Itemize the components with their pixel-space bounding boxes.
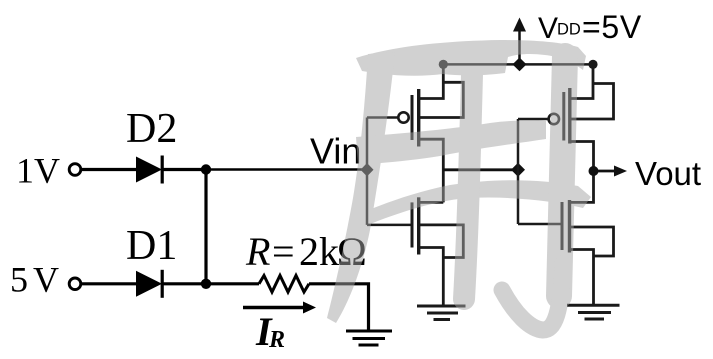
M1 gate bubble bbox=[398, 112, 408, 122]
ground (inverter 2) bbox=[567, 305, 620, 319]
wire gate lead to M1 bbox=[367, 116, 398, 119]
node inverter2 input diamond bbox=[511, 163, 525, 177]
svg-text:Vout: Vout bbox=[635, 155, 701, 192]
wire and arrow to Vout bbox=[594, 166, 628, 177]
watermark top horizontal stroke bbox=[356, 40, 586, 76]
current arrow IR bbox=[243, 302, 316, 314]
M1 gate bar bbox=[411, 95, 414, 140]
M2 drain lead bbox=[419, 201, 444, 204]
ground (inverter 1) bbox=[417, 306, 466, 320]
wire inverter1 gate column bbox=[366, 118, 369, 225]
M3 gate bar bbox=[562, 92, 565, 141]
resistor R1 zigzag bbox=[259, 276, 309, 293]
M1 channel bar bbox=[417, 89, 420, 147]
wire D1 cathode to node B bbox=[163, 282, 206, 285]
terminal 1V input bbox=[69, 164, 81, 176]
M3 gate bubble bbox=[549, 114, 559, 124]
svg-text:VDD=5V: VDD=5V bbox=[538, 9, 642, 45]
M4 channel bar bbox=[568, 200, 571, 253]
M2 gate bar bbox=[411, 202, 414, 247]
svg-text:D1: D1 bbox=[126, 223, 177, 269]
node Vin junction diamond bbox=[361, 163, 374, 176]
node A junction dot bbox=[201, 164, 211, 174]
wire VDD rail bbox=[443, 63, 593, 66]
transistor M3 PMOS of inverter 2 bbox=[518, 64, 614, 171]
wire gate lead to M2 bbox=[367, 224, 412, 227]
wire node B to resistor R bbox=[206, 282, 259, 285]
svg-text:1V: 1V bbox=[16, 151, 60, 191]
node Vout junction dot bbox=[589, 166, 599, 176]
ground (resistor) bbox=[346, 331, 392, 345]
wire D2 cathode to node A bbox=[163, 168, 206, 171]
wire 1V to D2 anode bbox=[81, 168, 137, 171]
M2 channel bar bbox=[417, 197, 420, 254]
M1 bulk tie to source bbox=[419, 82, 464, 117]
watermark brush character bbox=[327, 40, 591, 330]
M1 source lead bbox=[419, 64, 444, 98]
op-amp: (none) PMOS transistor M1 of inverter 1 bbox=[367, 64, 463, 202]
M3 source lead bbox=[570, 64, 593, 98]
node rail to M1 source bbox=[439, 60, 448, 69]
wire gate lead to M3 bbox=[518, 118, 548, 121]
wire resistor to ground stem bbox=[309, 284, 369, 331]
terminal 5V input bbox=[69, 278, 81, 290]
svg-text:R: R bbox=[268, 327, 285, 353]
watermark middle band B bbox=[352, 180, 591, 230]
wire inverter1 output to inverter2 gate bbox=[443, 168, 518, 171]
diode D2 bbox=[136, 156, 164, 184]
node VDD diamond bbox=[513, 58, 527, 72]
wire gate lead to M4 bbox=[518, 223, 562, 226]
watermark right vertical stroke bbox=[559, 56, 565, 296]
svg-text:D2: D2 bbox=[126, 106, 177, 152]
watermark middle band A bbox=[356, 120, 546, 165]
M4 gate bar bbox=[561, 202, 564, 250]
wire inverter2 gate column bbox=[517, 119, 520, 224]
svg-text:5V: 5V bbox=[10, 260, 59, 300]
watermark hook of right stroke bbox=[502, 264, 563, 330]
M4 source lead down to ground bbox=[570, 250, 594, 306]
M2 bulk tie to source bbox=[419, 225, 464, 258]
wire 5V to D1 anode bbox=[81, 282, 137, 285]
transistor M4 NMOS of inverter 2 bbox=[518, 171, 614, 305]
M3 drain lead bbox=[570, 142, 594, 172]
node rail to M3 source bbox=[588, 60, 597, 69]
M3 channel bar bbox=[568, 88, 571, 144]
transistor M2 NMOS of inverter 1 bbox=[367, 197, 463, 306]
M4 bulk tie to source bbox=[570, 227, 614, 256]
node B junction dot bbox=[201, 279, 211, 289]
watermark left falling stroke bbox=[327, 52, 395, 323]
M4 drain lead bbox=[570, 171, 594, 202]
M2 source lead down to ground bbox=[419, 248, 444, 307]
wire node A to Vin (inverter1 gate) bbox=[206, 168, 367, 171]
diode D1 bbox=[136, 270, 164, 298]
svg-text:Vin: Vin bbox=[310, 131, 361, 172]
watermark center vertical stroke bbox=[464, 74, 472, 299]
M3 bulk tie to source bbox=[570, 84, 614, 120]
power VDD arrow bbox=[513, 18, 526, 65]
wire node A down to node B bbox=[204, 170, 207, 284]
M1 drain lead bbox=[419, 139, 444, 202]
